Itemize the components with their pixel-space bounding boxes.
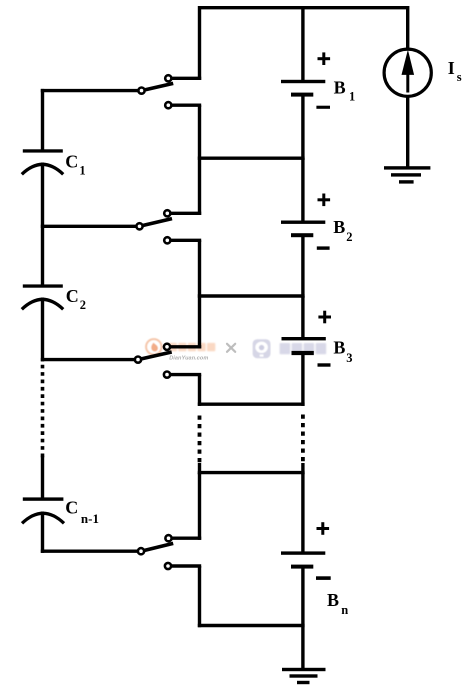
ground (current source) bbox=[384, 166, 430, 183]
wire switch 1 lower contact lead bbox=[168, 103, 201, 106]
label - (Bn) bbox=[316, 576, 331, 580]
ground (battery chain) bbox=[282, 668, 326, 684]
label Is bbox=[448, 58, 462, 84]
switch S1 bbox=[138, 75, 173, 108]
svg-text:B: B bbox=[333, 337, 345, 357]
svg-text:n: n bbox=[341, 603, 348, 617]
svg-text:2: 2 bbox=[346, 230, 352, 244]
switch S4 bbox=[138, 535, 173, 569]
wire left chain top lead to switch 1 bbox=[41, 89, 142, 92]
svg-text:3: 3 bbox=[346, 351, 352, 365]
wire stub to node n-1 rail (left) bbox=[198, 463, 201, 474]
svg-text:n-1: n-1 bbox=[81, 511, 99, 526]
wire node3 rail bbox=[198, 403, 305, 406]
label + (Bn) bbox=[317, 522, 330, 535]
battery B1 bbox=[281, 80, 325, 97]
svg-text:B: B bbox=[334, 77, 346, 97]
wire mid riser node3 bbox=[198, 375, 201, 406]
wire B3 minus to node3 bbox=[301, 354, 304, 406]
label B3 bbox=[333, 337, 352, 365]
wire dotted continuation left chain bbox=[41, 365, 45, 460]
wire switch 3 lower contact lead bbox=[167, 373, 201, 376]
wire node n-1 to Bn bbox=[301, 473, 304, 553]
label C2 bbox=[66, 286, 86, 312]
wire switch 4 lower contact lead bbox=[168, 564, 201, 567]
label C1 bbox=[65, 152, 85, 178]
watermark x mark bbox=[227, 344, 235, 352]
wire node n rail bbox=[198, 624, 305, 627]
capacitor C2 bbox=[22, 284, 63, 309]
capacitor C1 bbox=[22, 149, 63, 174]
battery B2 bbox=[281, 221, 325, 238]
battery B3 bbox=[282, 337, 326, 355]
svg-text:2: 2 bbox=[80, 298, 86, 312]
wire mid riser node n-1 bbox=[198, 473, 201, 540]
wire mid riser node1 bbox=[198, 105, 201, 215]
label - (B3) bbox=[318, 363, 331, 366]
wire mid riser node2 bbox=[198, 240, 201, 348]
wire switch 3 common lead bbox=[41, 358, 138, 361]
svg-text:DianYuan.com: DianYuan.com bbox=[169, 355, 208, 361]
wire node2 to B3 bbox=[301, 296, 304, 339]
wire B1 minus to node1 bbox=[301, 96, 304, 160]
svg-text:1: 1 bbox=[349, 89, 355, 103]
wire switch 1 upper contact lead bbox=[168, 77, 201, 80]
wire current source to ground bbox=[406, 96, 409, 167]
wire switch 2 common lead bbox=[41, 225, 140, 228]
wire switch 2 upper contact lead bbox=[167, 212, 201, 215]
wire switch 4 upper contact lead bbox=[169, 537, 202, 540]
svg-text:s: s bbox=[457, 70, 462, 84]
label - (B1) bbox=[316, 106, 330, 109]
wire top rail with risers bbox=[200, 8, 408, 80]
wire Cn-1 bottom to switch 4 bbox=[41, 512, 44, 553]
svg-text:B: B bbox=[333, 217, 345, 237]
wire C2 bottom to junction at switch 3 bbox=[41, 298, 44, 362]
watermark url text bbox=[169, 355, 208, 361]
svg-text:1: 1 bbox=[79, 164, 85, 178]
wire Bn minus through node n to ground bbox=[301, 568, 304, 669]
label + (B1) bbox=[318, 52, 331, 65]
wire switch 4 common lead bbox=[41, 550, 141, 553]
watermark lavender logo bbox=[253, 339, 271, 358]
wire node n-1 rail bbox=[198, 471, 305, 474]
wire left chain top to C1 bbox=[41, 89, 44, 151]
label Cn-1 bbox=[65, 498, 99, 526]
svg-text:B: B bbox=[327, 590, 339, 610]
wire node1 rail bbox=[198, 156, 305, 159]
battery Bn bbox=[281, 551, 325, 568]
label + (B3) bbox=[318, 311, 331, 324]
label - (B2) bbox=[317, 246, 330, 249]
svg-text:C: C bbox=[65, 152, 78, 172]
switch S2 bbox=[136, 210, 172, 243]
watermark lavender CJK text (blurred blobs) bbox=[280, 343, 327, 354]
watermark orange CJK text (blurred blobs) bbox=[169, 343, 216, 351]
svg-text:C: C bbox=[66, 286, 79, 306]
current source Is bbox=[384, 49, 431, 96]
wire dotted continuation battery chain bbox=[301, 415, 305, 464]
svg-text:I: I bbox=[448, 58, 455, 78]
capacitor Cn-1 bbox=[22, 497, 64, 523]
label Bn bbox=[327, 590, 348, 617]
wire left chain to Cn-1 bbox=[41, 457, 44, 499]
svg-text:C: C bbox=[65, 498, 78, 518]
wire dotted continuation left-mid bbox=[198, 416, 202, 464]
wire mid riser node n bbox=[198, 566, 201, 627]
label + (B2) bbox=[318, 194, 331, 207]
label B1 bbox=[334, 77, 356, 103]
wire switch 2 lower contact lead bbox=[167, 239, 201, 242]
watermark orange logo bbox=[146, 339, 161, 354]
wire node1 to B2 bbox=[301, 158, 304, 222]
switch S3 bbox=[135, 344, 172, 378]
wire switch 3 upper contact lead bbox=[167, 345, 201, 348]
wire B2 minus to node2 bbox=[301, 236, 304, 298]
wire stub to node n-1 rail (right) bbox=[301, 463, 304, 474]
wire C1 bottom to C2 (junction at switch 2) bbox=[41, 163, 44, 286]
wire battery chain top to B1 bbox=[301, 6, 304, 82]
label B2 bbox=[333, 217, 352, 244]
wire node2 rail bbox=[198, 294, 305, 297]
